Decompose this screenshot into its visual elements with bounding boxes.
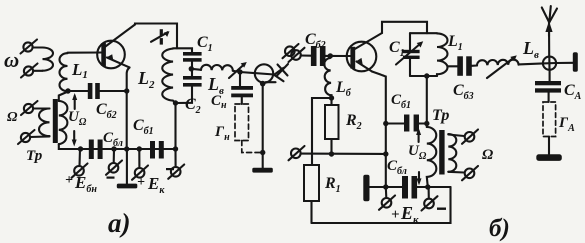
wire tank bottom (b) xyxy=(410,75,437,77)
arrow U-omega down (a) xyxy=(72,131,77,147)
inductor Lv (a) xyxy=(201,65,233,71)
jack connector (a) xyxy=(255,64,284,82)
inductor Lv (b) xyxy=(477,60,519,66)
node base junction xyxy=(328,53,333,58)
node Tr top (b) xyxy=(424,121,429,126)
wire terminal stub xyxy=(113,149,115,163)
capacitor C2 (tank a) xyxy=(183,76,202,87)
wire node to Cb2 xyxy=(68,90,88,92)
wire secondary top lead xyxy=(448,135,464,137)
node Lb bottom xyxy=(329,95,334,100)
node R2 bottom xyxy=(329,151,334,156)
inductor Tr primary (Omega input winding) xyxy=(39,109,50,137)
wire L1 tap to Cb3 xyxy=(448,65,458,67)
node terminal Omega out bottom xyxy=(462,166,478,180)
svg-text:Ω: Ω xyxy=(7,110,18,125)
node terminal +Ebn xyxy=(72,164,88,178)
capacitor Cbl (b) xyxy=(402,176,417,199)
resistor GA dashed box xyxy=(543,102,556,137)
node terminal +Ek (b) xyxy=(379,196,395,210)
wire jack to chassis xyxy=(556,62,573,64)
node tank tap xyxy=(189,66,194,71)
ground (a) xyxy=(117,149,138,188)
wire jack down to ground xyxy=(262,84,264,168)
node terminal minus Ek (b) xyxy=(422,196,438,210)
wire terminal stub xyxy=(385,187,388,198)
wire collector to top rail xyxy=(135,24,177,49)
node rail 4 xyxy=(137,146,142,151)
capacitor Cb1 (b) xyxy=(404,115,419,132)
wire emitter down (b) xyxy=(372,72,386,188)
wire xyxy=(33,107,50,109)
wire tank to Cb1 node xyxy=(426,76,428,127)
node terminal plug (a) xyxy=(283,44,299,58)
wire Cb2 to emitter line xyxy=(100,90,127,92)
node emitter / Cb2 xyxy=(124,88,129,93)
node input cross mark (b) xyxy=(277,64,289,76)
node emitter Cb1 xyxy=(383,121,388,126)
wire jack sleeve tick xyxy=(266,81,276,83)
node input terminal (b) xyxy=(289,48,305,62)
variable arrow through Lv (b) xyxy=(487,55,517,78)
wire into jack xyxy=(240,72,274,75)
wire Cb1 row xyxy=(386,122,404,124)
inductor microphone winding (omega input) xyxy=(43,48,54,71)
node L1 bottom xyxy=(65,88,70,93)
arrow U-omega up (a) xyxy=(72,93,77,109)
capacitor C1 variable (b) xyxy=(396,33,423,76)
wire xyxy=(301,54,311,56)
inductor L2 xyxy=(162,49,175,103)
svg-text:+: + xyxy=(391,207,400,223)
node terminal Omega out top xyxy=(462,130,478,144)
ground (a right) xyxy=(252,168,272,173)
node rail 3 xyxy=(124,146,129,151)
resistor R1 xyxy=(304,165,319,223)
telegraph key lever arrow xyxy=(151,31,170,42)
inductor L1 xyxy=(60,53,68,91)
node terminal bias (b) xyxy=(289,146,305,160)
capacitor Cn xyxy=(231,72,253,104)
wire terminal stub xyxy=(174,149,176,167)
inductor Lb xyxy=(324,58,331,98)
wire Lv to jack xyxy=(233,71,240,72)
transistor Q1 xyxy=(97,25,135,69)
transistor Q2 xyxy=(347,33,382,72)
node tank bottom (b) xyxy=(424,73,429,78)
node input terminal omega top xyxy=(21,40,38,54)
inductor Tr secondary (b) xyxy=(448,134,456,172)
resistor Gn dashed box xyxy=(235,104,249,141)
capacitor C1 (tank a) xyxy=(183,52,202,62)
wire emitter lead down xyxy=(127,68,130,150)
wire Lv to antenna jack xyxy=(519,63,544,64)
wire xyxy=(419,122,427,124)
wire bias row xyxy=(301,153,386,155)
inductor Tr secondary U-omega winding (a) xyxy=(59,101,68,144)
svg-text:б): б) xyxy=(489,215,510,242)
node rail 5 xyxy=(173,146,178,151)
wire node to C2 xyxy=(191,69,193,76)
capacitor CA xyxy=(535,70,561,102)
node input terminal omega bottom xyxy=(21,64,38,78)
svg-text:+: + xyxy=(137,175,145,190)
wire tap to Lv xyxy=(191,69,201,70)
capacitor Cb2 (a) xyxy=(88,83,100,99)
ground chassis bar (b left) xyxy=(363,175,369,202)
node emitter Cbl row xyxy=(383,184,388,189)
capacitor Cb1 (a) xyxy=(150,141,164,159)
antenna xyxy=(542,6,557,57)
wire tank top (b) xyxy=(410,32,437,34)
wire Cbl row right xyxy=(417,186,450,188)
wire terminal stub xyxy=(78,149,81,166)
node terminal minus Ek (a) xyxy=(168,165,184,179)
capacitor Cbl (a) xyxy=(89,140,103,160)
wire secondary bottom lead xyxy=(448,171,464,174)
wire base node left xyxy=(312,98,332,165)
svg-text:ω: ω xyxy=(4,48,19,72)
arrow U-omega down (b) xyxy=(417,172,422,185)
wire C1 to node xyxy=(191,62,193,69)
label minus Ek (a) xyxy=(166,168,174,170)
node dashed join xyxy=(260,150,265,155)
node tank bottom xyxy=(173,100,178,105)
wire base lead Q1 xyxy=(68,51,103,53)
node jack bottom xyxy=(260,81,266,87)
wire Cbl row left xyxy=(370,186,403,188)
svg-text:а): а) xyxy=(108,208,131,238)
label minus Ek (b) xyxy=(437,208,446,210)
inductor L1 (b) xyxy=(437,33,448,76)
node Tr bottom row xyxy=(425,184,430,189)
svg-text:Тр: Тр xyxy=(26,148,43,164)
label minus Ebn xyxy=(107,177,115,179)
wire tank top xyxy=(173,48,192,52)
transformer core Tr (a) xyxy=(53,99,58,143)
capacitor Cb2 (b) xyxy=(311,46,326,66)
svg-text:+: + xyxy=(65,173,73,188)
node Cn tap xyxy=(237,69,242,74)
capacitor Cb3 xyxy=(457,56,472,76)
node rail 2 xyxy=(111,146,116,151)
jack antenna (b) xyxy=(543,57,556,70)
wire terminal stub xyxy=(138,149,140,168)
wire to base Q2 xyxy=(326,55,352,57)
node emitter bias row xyxy=(383,151,388,156)
variable arrow through Lv xyxy=(229,62,247,78)
wire terminal stub xyxy=(428,187,430,199)
resistor R2 xyxy=(325,98,339,154)
wire dashed link to ground line xyxy=(242,141,260,153)
node terminal minus Ebn xyxy=(106,161,122,175)
node terminal +Ek (a) xyxy=(132,166,148,180)
inductor Tr primary winding (b) xyxy=(427,127,437,187)
ground chassis bar (b right) xyxy=(573,52,578,72)
wire xyxy=(33,70,43,72)
svg-text:Ω: Ω xyxy=(482,147,493,163)
wire collector to rail (b) xyxy=(382,22,427,33)
wire bottom return (b) xyxy=(312,187,451,223)
wire GA to ground xyxy=(548,137,550,155)
node rail 1 xyxy=(78,146,83,151)
svg-text:Тр: Тр xyxy=(432,107,449,124)
node terminal Omega top xyxy=(21,101,38,115)
wire xyxy=(30,135,50,138)
wire xyxy=(33,46,43,48)
transformer core Tr (b) xyxy=(439,130,444,175)
wire C2 bottom to tank bottom xyxy=(176,87,193,103)
wire winding link xyxy=(59,92,68,102)
node terminal Omega bottom xyxy=(18,130,35,144)
arrow U-omega up (b) xyxy=(416,128,421,142)
wire tank bottom down to rail xyxy=(174,103,176,149)
telegraph key contacts xyxy=(160,29,163,44)
wire winding to rail xyxy=(59,144,176,149)
ground (b far right) xyxy=(536,154,562,161)
wire xyxy=(472,64,477,66)
